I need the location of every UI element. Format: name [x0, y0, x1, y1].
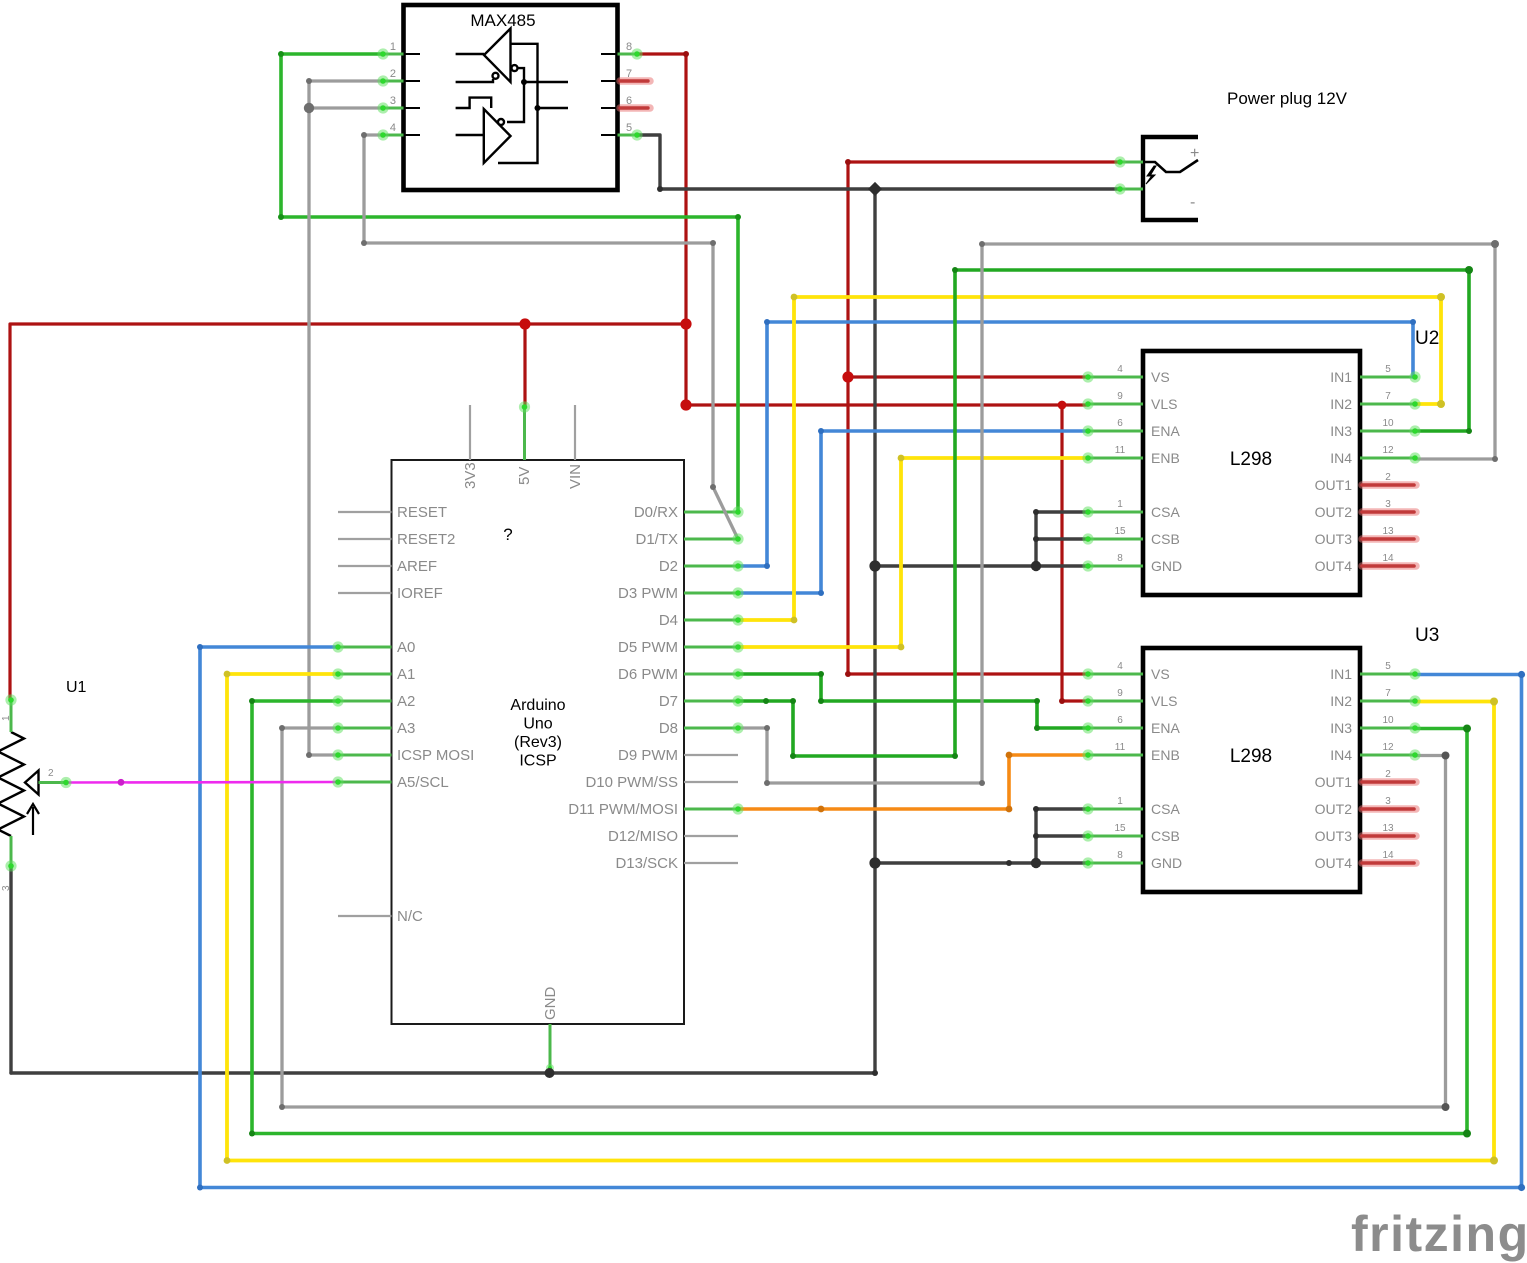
- svg-text:2: 2: [1385, 769, 1391, 780]
- wire Arduino D5 to U2 ENB (yellow): [738, 458, 1088, 647]
- U2 pin VS: [1088, 364, 1170, 385]
- svg-text:15: 15: [1114, 526, 1126, 537]
- Arduino pin D10 PWM/SS: [585, 774, 738, 791]
- U1 pin 1: [1, 700, 12, 732]
- svg-text:RESET2: RESET2: [397, 531, 455, 548]
- svg-text:3: 3: [1385, 499, 1391, 510]
- U3 pin CSA: [1088, 796, 1180, 817]
- U3 pin OUT2: [1315, 796, 1416, 817]
- svg-text:OUT4: OUT4: [1315, 855, 1353, 871]
- svg-text:D8: D8: [659, 720, 678, 737]
- svg-text:D7: D7: [659, 693, 678, 710]
- svg-text:?: ?: [503, 525, 512, 544]
- wire pot U1 pin2 to Arduino A5/SCL (magenta): [66, 781, 338, 784]
- Arduino pin RESET2: [338, 531, 455, 548]
- MAX485 pin 7 unconnected stub: [620, 77, 650, 85]
- Arduino pin D11 PWM/MOSI: [568, 801, 738, 818]
- svg-text:2: 2: [48, 768, 54, 779]
- U2 pin CSA: [1088, 499, 1180, 520]
- svg-text:+: +: [1190, 145, 1199, 162]
- wire Arduino D2 to U2 IN1 (blue): [738, 322, 1413, 566]
- Arduino pin D7: [659, 693, 738, 710]
- svg-text:IN3: IN3: [1330, 423, 1352, 439]
- U1 pin 2: [39, 768, 67, 783]
- U3 pin ENB: [1088, 742, 1180, 763]
- Arduino pin RESET: [338, 504, 447, 521]
- MAX485 pin numbers: [390, 41, 632, 134]
- Arduino pin D0/RX: [634, 504, 738, 521]
- Arduino pin N/C: [338, 908, 423, 925]
- svg-text:5: 5: [1385, 364, 1391, 375]
- wire Arduino A1 to U3 IN2 (yellow loop): [227, 674, 1494, 1161]
- svg-text:10: 10: [1382, 418, 1394, 429]
- svg-text:(Rev3): (Rev3): [514, 734, 562, 751]
- svg-text:1: 1: [390, 41, 396, 53]
- wire net 5V branch to Arduino 5V: [523, 324, 526, 406]
- svg-text:4: 4: [1117, 364, 1123, 375]
- svg-text:3: 3: [1385, 796, 1391, 807]
- wire MAX485 pin2+pin3 to Arduino ICSP MOSI: [309, 81, 383, 755]
- svg-text:8: 8: [1117, 850, 1123, 861]
- svg-text:11: 11: [1115, 742, 1126, 753]
- svg-text:12: 12: [1382, 742, 1394, 753]
- svg-text:CSA: CSA: [1151, 801, 1180, 817]
- U3 pin OUT1: [1315, 769, 1416, 790]
- svg-text:IN4: IN4: [1330, 450, 1352, 466]
- wire net 5V to U3 VLS: [1062, 405, 1088, 701]
- svg-text:ICSP: ICSP: [519, 753, 556, 770]
- svg-text:Power plug 12V: Power plug 12V: [1227, 89, 1348, 108]
- svg-text:10: 10: [1382, 715, 1394, 726]
- U2 pin OUT2: [1315, 499, 1416, 520]
- Arduino pin D4: [659, 612, 738, 629]
- svg-text:CSB: CSB: [1151, 531, 1180, 547]
- svg-text:U3: U3: [1415, 625, 1439, 646]
- Arduino pin D3 PWM: [618, 585, 738, 602]
- svg-text:IOREF: IOREF: [397, 585, 443, 602]
- svg-text:A0: A0: [397, 639, 415, 656]
- svg-text:4: 4: [390, 122, 396, 134]
- wire Arduino A2 to U3 IN3 (green loop): [252, 701, 1467, 1134]
- potentiometer U1 body: [0, 732, 39, 836]
- svg-text:OUT4: OUT4: [1315, 558, 1353, 574]
- IC MAX485 body: [383, 5, 637, 190]
- svg-text:6: 6: [1117, 715, 1123, 726]
- svg-text:N/C: N/C: [397, 908, 423, 925]
- svg-text:4: 4: [1117, 661, 1123, 672]
- wire Arduino D6 to U3 ENA (green): [738, 674, 1088, 728]
- svg-text:AREF: AREF: [397, 558, 437, 575]
- Arduino Uno U? body: [392, 460, 685, 1024]
- svg-text:14: 14: [1382, 850, 1394, 861]
- U2 pin OUT3: [1315, 526, 1416, 547]
- svg-text:GND: GND: [1151, 855, 1182, 871]
- wire net GND to U3 CSA CSB GND: [875, 861, 1088, 864]
- Arduino pin D1/TX: [635, 531, 738, 548]
- IC U3 L298 body: [1143, 648, 1360, 892]
- svg-text:D13/SCK: D13/SCK: [615, 855, 678, 872]
- svg-text:D3 PWM: D3 PWM: [618, 585, 678, 602]
- svg-text:L298: L298: [1230, 746, 1272, 767]
- Arduino pin 5V: [516, 406, 533, 485]
- MAX485 pin 6 unconnected stub: [620, 104, 650, 112]
- wire net 5V: MAX485 pin8 down: [637, 54, 686, 405]
- wire net GND from pot pin3: [9, 866, 12, 1073]
- svg-text:ENA: ENA: [1151, 423, 1180, 439]
- pin connection glow dots: [5, 48, 1420, 871]
- Arduino pin 3V3: [462, 405, 479, 489]
- svg-text:9: 9: [1117, 391, 1123, 402]
- svg-text:IN1: IN1: [1330, 369, 1352, 385]
- wire net GND to U2 CSA CSB GND: [875, 564, 1088, 567]
- svg-text:A3: A3: [397, 720, 415, 737]
- svg-text:5V: 5V: [516, 467, 533, 485]
- svg-text:OUT2: OUT2: [1315, 504, 1353, 520]
- U2 pin IN1: [1330, 364, 1415, 385]
- Arduino pin D9 PWM: [618, 747, 738, 764]
- svg-text:VS: VS: [1151, 666, 1170, 682]
- svg-text:A5/SCL: A5/SCL: [397, 774, 449, 791]
- U2 pin OUT4: [1315, 553, 1416, 574]
- svg-text:1: 1: [1117, 499, 1123, 510]
- svg-text:VS: VS: [1151, 369, 1170, 385]
- svg-text:8: 8: [626, 41, 632, 53]
- svg-text:1: 1: [1, 715, 12, 721]
- svg-text:15: 15: [1114, 823, 1126, 834]
- svg-text:7: 7: [1385, 688, 1391, 699]
- svg-text:CSB: CSB: [1151, 828, 1180, 844]
- svg-text:VLS: VLS: [1151, 396, 1177, 412]
- Arduino pin A2: [338, 693, 415, 710]
- wire net GND vertical: [11, 189, 875, 1073]
- Arduino pin A0: [338, 639, 415, 656]
- svg-text:VLS: VLS: [1151, 693, 1177, 709]
- svg-text:A2: A2: [397, 693, 415, 710]
- U2 pin IN4: [1330, 445, 1415, 466]
- U3 pin CSB: [1088, 823, 1180, 844]
- svg-text:Uno: Uno: [523, 716, 552, 733]
- Arduino pin ICSP MOSI: [338, 747, 474, 764]
- U2 pin ENA: [1088, 418, 1180, 439]
- wire Arduino D3 to U2 ENA (blue): [738, 431, 1088, 593]
- wire Arduino D4 to U2 IN2 (yellow): [738, 297, 1441, 620]
- power plug J1 12V: [1120, 137, 1199, 220]
- U3 pin IN4: [1330, 742, 1415, 763]
- svg-text:L298: L298: [1230, 449, 1272, 470]
- svg-text:OUT1: OUT1: [1315, 477, 1353, 493]
- svg-text:OUT3: OUT3: [1315, 531, 1353, 547]
- svg-text:IN4: IN4: [1330, 747, 1352, 763]
- U3 pin IN2: [1330, 688, 1415, 709]
- wire Arduino D7 to U2 IN3 (green): [738, 270, 1469, 756]
- svg-text:3V3: 3V3: [462, 462, 479, 489]
- svg-text:OUT3: OUT3: [1315, 828, 1353, 844]
- U3 pin IN1: [1330, 661, 1415, 682]
- svg-text:6: 6: [1117, 418, 1123, 429]
- svg-text:D11 PWM/MOSI: D11 PWM/MOSI: [568, 801, 678, 818]
- U2 pin IN3: [1330, 418, 1415, 439]
- Arduino pin IOREF: [338, 585, 443, 602]
- Arduino pin A5/SCL: [338, 774, 449, 791]
- svg-text:D12/MISO: D12/MISO: [608, 828, 678, 845]
- wire Arduino A3 to U3 IN4 (gray loop): [282, 728, 1446, 1107]
- wire net 5V to U2 VLS: [686, 403, 1088, 406]
- Arduino pin AREF: [338, 558, 437, 575]
- U2 pin GND: [1088, 553, 1182, 574]
- svg-text:3: 3: [390, 95, 396, 107]
- wire Arduino A0 to U3 IN1 (blue loop): [200, 647, 1522, 1188]
- svg-text:D10 PWM/SS: D10 PWM/SS: [585, 774, 678, 791]
- svg-text:ENB: ENB: [1151, 450, 1180, 466]
- Arduino pin D8: [659, 720, 738, 737]
- svg-text:CSA: CSA: [1151, 504, 1180, 520]
- wire net GND: MAX485 pin5 to power plug -: [637, 135, 1120, 189]
- svg-text:A1: A1: [397, 666, 415, 683]
- svg-text:13: 13: [1382, 823, 1394, 834]
- U3 pin ENA: [1088, 715, 1180, 736]
- Arduino pin GND: [542, 987, 559, 1074]
- Arduino pin A3: [338, 720, 415, 737]
- Arduino pin D13/SCK: [615, 855, 738, 872]
- U2 pin VLS: [1088, 391, 1177, 412]
- svg-text:IN2: IN2: [1330, 693, 1352, 709]
- U2 pin ENB: [1088, 445, 1180, 466]
- svg-text:Arduino: Arduino: [510, 697, 565, 714]
- svg-text:-: -: [1190, 194, 1195, 211]
- svg-text:11: 11: [1115, 445, 1126, 456]
- IC U2 L298 body: [1143, 351, 1360, 595]
- svg-text:5: 5: [626, 122, 632, 134]
- U3 pin VS: [1088, 661, 1170, 682]
- svg-text:GND: GND: [1151, 558, 1182, 574]
- svg-text:fritzing: fritzing: [1351, 1206, 1527, 1262]
- svg-text:2: 2: [390, 68, 396, 80]
- U3 pin OUT4: [1315, 850, 1416, 871]
- Arduino pin D2: [659, 558, 738, 575]
- wire MAX485 pin1 to Arduino D0/RX: [281, 54, 738, 512]
- svg-text:VIN: VIN: [567, 464, 584, 489]
- svg-text:U2: U2: [1415, 328, 1439, 349]
- svg-text:GND: GND: [542, 987, 559, 1021]
- svg-text:D5 PWM: D5 PWM: [618, 639, 678, 656]
- svg-text:IN1: IN1: [1330, 666, 1352, 682]
- svg-text:8: 8: [1117, 553, 1123, 564]
- svg-text:RESET: RESET: [397, 504, 447, 521]
- svg-text:D0/RX: D0/RX: [634, 504, 678, 521]
- svg-text:5: 5: [1385, 661, 1391, 672]
- wire MAX485 pin4 to Arduino D1/TX: [364, 135, 738, 539]
- U3 pin OUT3: [1315, 823, 1416, 844]
- svg-text:14: 14: [1382, 553, 1394, 564]
- U3 pin GND: [1088, 850, 1182, 871]
- svg-text:OUT1: OUT1: [1315, 774, 1353, 790]
- svg-text:U1: U1: [66, 679, 87, 696]
- svg-text:OUT2: OUT2: [1315, 801, 1353, 817]
- svg-text:7: 7: [1385, 391, 1391, 402]
- U1 pin 3: [1, 836, 12, 891]
- U2 pin OUT1: [1315, 472, 1416, 493]
- Arduino pin D5 PWM: [618, 639, 738, 656]
- svg-text:2: 2: [1385, 472, 1391, 483]
- svg-text:D2: D2: [659, 558, 678, 575]
- svg-text:D4: D4: [659, 612, 678, 629]
- svg-text:IN2: IN2: [1330, 396, 1352, 412]
- svg-text:MAX485: MAX485: [470, 11, 535, 30]
- U2 pin CSB: [1088, 526, 1180, 547]
- wire net 5V horizontal to pot pin1: [10, 324, 686, 700]
- U3 pin VLS: [1088, 688, 1177, 709]
- svg-text:D6 PWM: D6 PWM: [618, 666, 678, 683]
- svg-text:12: 12: [1382, 445, 1394, 456]
- wire Arduino D11 to U3 ENB (orange): [738, 755, 1088, 809]
- Arduino pin VIN: [567, 405, 584, 489]
- svg-text:ICSP MOSI: ICSP MOSI: [397, 747, 474, 764]
- svg-text:ENA: ENA: [1151, 720, 1180, 736]
- svg-text:1: 1: [1117, 796, 1123, 807]
- U2 pin IN2: [1330, 391, 1415, 412]
- svg-text:IN3: IN3: [1330, 720, 1352, 736]
- wire net 12V: power plug + to U2 VS / U3 VS: [848, 162, 1120, 674]
- Arduino pin D6 PWM: [618, 666, 738, 683]
- wire Arduino D8 to U2 IN4 (gray): [738, 244, 1495, 783]
- U3 pin IN3: [1330, 715, 1415, 736]
- svg-text:9: 9: [1117, 688, 1123, 699]
- svg-text:D1/TX: D1/TX: [635, 531, 678, 548]
- Arduino pin A1: [338, 666, 415, 683]
- svg-text:13: 13: [1382, 526, 1394, 537]
- Arduino pin D12/MISO: [608, 828, 738, 845]
- svg-text:D9 PWM: D9 PWM: [618, 747, 678, 764]
- svg-text:ENB: ENB: [1151, 747, 1180, 763]
